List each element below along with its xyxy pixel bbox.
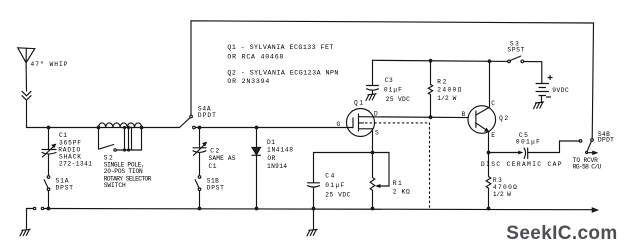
svg-text:D: D <box>374 111 378 118</box>
svg-text:E: E <box>491 132 495 139</box>
svg-text:DPST: DPST <box>56 185 74 192</box>
svg-text:G: G <box>337 121 341 128</box>
svg-text:OR RCA 40468: OR RCA 40468 <box>227 54 283 61</box>
svg-text:S1A: S1A <box>56 178 69 185</box>
svg-text:DPST: DPST <box>207 185 224 192</box>
svg-text:S2: S2 <box>104 155 113 162</box>
svg-text:001μF: 001μF <box>516 138 540 145</box>
svg-text:SWITCH: SWITCH <box>104 182 126 189</box>
svg-text:SeekIC.com: SeekIC.com <box>506 223 617 244</box>
svg-text:R2: R2 <box>437 79 446 86</box>
svg-text:R1: R1 <box>393 180 402 187</box>
svg-text:B: B <box>462 111 466 118</box>
svg-text:SAME AS: SAME AS <box>209 155 236 162</box>
svg-text:47" WHIP: 47" WHIP <box>31 61 68 68</box>
svg-text:S: S <box>375 130 379 137</box>
svg-text:OR 2N3394: OR 2N3394 <box>227 78 269 85</box>
svg-text:D1: D1 <box>267 139 275 146</box>
svg-text:RG-58 C/U: RG-58 C/U <box>573 164 602 171</box>
svg-text:2 KΩ: 2 KΩ <box>393 189 410 196</box>
svg-text:272-1341: 272-1341 <box>59 161 92 168</box>
svg-text:C4: C4 <box>325 173 334 180</box>
svg-text:1N4148: 1N4148 <box>267 146 293 153</box>
svg-text:365PF: 365PF <box>59 140 81 147</box>
svg-text:DPDT: DPDT <box>198 112 216 119</box>
svg-text:Q2: Q2 <box>499 115 508 122</box>
svg-text:1/2 W: 1/2 W <box>437 95 456 102</box>
svg-text:DISC CERAMIC CAP: DISC CERAMIC CAP <box>481 161 562 168</box>
svg-text:25 VDC: 25 VDC <box>325 192 350 199</box>
svg-text:C2: C2 <box>210 148 219 155</box>
svg-text:C1: C1 <box>209 163 217 170</box>
svg-text:9VDC: 9VDC <box>552 87 569 94</box>
svg-text:DPDT: DPDT <box>598 137 614 144</box>
svg-text:Q1 - SYLVANIA ECG133 FET: Q1 - SYLVANIA ECG133 FET <box>227 44 333 51</box>
svg-text:SPST: SPST <box>507 47 524 54</box>
svg-text:C3: C3 <box>385 77 393 84</box>
svg-text:S1B: S1B <box>207 177 219 184</box>
svg-text:01μF: 01μF <box>325 182 344 189</box>
svg-text:Q1: Q1 <box>354 100 363 107</box>
svg-text:C: C <box>491 100 495 107</box>
svg-text:2400Ω: 2400Ω <box>437 87 461 94</box>
svg-text:1/2 W: 1/2 W <box>493 191 511 198</box>
svg-text:Q2 - SYLVANIA ECG123A NPN: Q2 - SYLVANIA ECG123A NPN <box>227 69 338 76</box>
svg-text:C1: C1 <box>59 132 67 139</box>
svg-text:1N914: 1N914 <box>267 163 287 170</box>
svg-text:25 VDC: 25 VDC <box>386 96 410 103</box>
svg-text:20-POS TION: 20-POS TION <box>104 168 143 175</box>
svg-text:SHACK: SHACK <box>59 153 81 160</box>
svg-text:OR: OR <box>267 155 275 162</box>
svg-text:01μF: 01μF <box>384 87 402 94</box>
